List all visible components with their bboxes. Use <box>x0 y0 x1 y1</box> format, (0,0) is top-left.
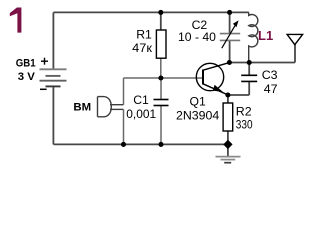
svg-text:10 - 40: 10 - 40 <box>178 30 216 44</box>
svg-text:C3: C3 <box>262 68 278 82</box>
svg-text:3 V: 3 V <box>18 71 35 83</box>
svg-text:330: 330 <box>236 118 253 132</box>
svg-text:GB1: GB1 <box>16 58 36 70</box>
svg-text:47: 47 <box>264 82 278 96</box>
svg-text:C1: C1 <box>133 93 149 107</box>
svg-text:0,001: 0,001 <box>126 107 156 121</box>
svg-text:47к: 47к <box>132 41 152 55</box>
svg-text:R2: R2 <box>236 105 252 119</box>
svg-text:R1: R1 <box>136 27 152 41</box>
svg-text:2N3904: 2N3904 <box>176 108 219 122</box>
svg-text:Q1: Q1 <box>190 94 206 108</box>
svg-text:BM: BM <box>73 101 91 113</box>
svg-text:L1: L1 <box>258 28 273 43</box>
